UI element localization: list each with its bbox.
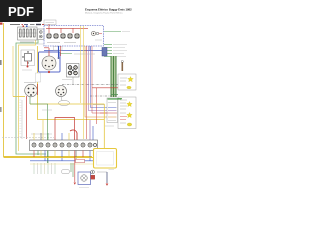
speedometer box (blue) <box>39 48 61 73</box>
lamp box B <box>118 97 136 129</box>
connector X3 (dark, right of blue bus) <box>102 48 107 57</box>
wire: orange branch <box>85 46 107 117</box>
chassis dash-dot line upper <box>62 84 118 86</box>
wire: red bus top <box>46 27 88 29</box>
connector plug P6 <box>91 31 102 36</box>
wire: blue bus below harness <box>44 50 102 52</box>
wire: red stub harness bottom <box>60 46 62 56</box>
wire: blue drop right <box>89 46 91 51</box>
svg-text:Manual - Diagrama Fiação Parte: Manual - Diagrama Fiação Parte Elétrica <box>85 12 123 15</box>
tiny labels above strip <box>31 133 52 135</box>
node: red stub top-left page edge <box>0 23 3 25</box>
wire: yellow horizontal mid <box>30 103 104 105</box>
wire: red drop with arrow <box>74 151 76 183</box>
labels under plugs <box>47 42 60 44</box>
ladder ticks along left band <box>19 100 21 136</box>
legend rows right <box>104 32 130 57</box>
wire: green feeds into lamp box B <box>111 95 123 99</box>
wire: red horizontal to lamp box <box>92 87 118 89</box>
wire: green label stub right of speedo <box>60 53 72 55</box>
wire: red vertical right of bundle <box>96 88 98 124</box>
margin mark 2 <box>0 107 2 112</box>
wire: center blue vertical <box>91 46 108 108</box>
wire: yellow drop from relay box to bottom <box>103 104 105 148</box>
small dark component above lamp box <box>122 62 124 71</box>
label card left of speedometer <box>36 73 41 82</box>
wire: center yellow verticals <box>80 26 82 103</box>
label oval bottom left <box>62 170 70 174</box>
wire: red drops from bus <box>49 24 73 33</box>
label box under harness <box>54 47 63 51</box>
chassis dash-dot line lower <box>90 95 118 97</box>
wire: left margin yellow vertical <box>4 23 93 157</box>
harness box (blue dashed) <box>44 26 104 47</box>
relay K1 <box>21 50 35 68</box>
fuse box F1 <box>18 26 38 43</box>
wire: yellow vertical mid-left turning right <box>38 46 105 120</box>
connector plug P4 <box>67 33 72 38</box>
starter cluster right <box>91 170 114 186</box>
wire: center purple vertical <box>89 46 108 111</box>
instrument cluster G1 left <box>24 83 38 105</box>
relay box R (left of lamp box B) <box>100 98 122 123</box>
wire stubs below strip <box>34 151 90 164</box>
svg-text:PDF: PDF <box>8 4 34 19</box>
margin mark 1 <box>0 60 2 65</box>
wire: yellow bottom horizontal <box>4 157 94 159</box>
small label box above harness <box>44 20 56 25</box>
terminal strip TB1 <box>30 140 98 151</box>
wire: red vertical left <box>26 96 28 139</box>
wire: gray vertical <box>21 100 23 139</box>
wire: left yellow vertical 2 <box>12 46 14 97</box>
svg-text:Esquema Elétrico Buggy Emis 19: Esquema Elétrico Buggy Emis 1982 <box>85 8 132 12</box>
wire: left yellow vertical 3 <box>19 40 36 151</box>
wire: left green vertical <box>16 40 46 154</box>
wire: blue bottom horizontal <box>30 160 94 162</box>
wire stubs above strip <box>34 120 93 140</box>
wire: green vertical to strip <box>30 104 48 140</box>
wire: blue thick from harness to speedometer <box>58 46 60 57</box>
battery box (yellow) <box>94 149 117 169</box>
ignition switch S1 <box>56 86 70 106</box>
wire: center red vertical <box>86 46 88 139</box>
label tag on blue wire <box>76 159 85 162</box>
connector plug P2 <box>53 33 58 38</box>
lamp L1 <box>128 77 134 82</box>
lamp box A <box>118 74 136 90</box>
connector X2 (right of fuse box) <box>38 29 45 40</box>
wire: green drops to motor <box>71 163 73 177</box>
connector plug P3 <box>60 33 65 38</box>
connector plug P5 <box>74 33 79 38</box>
wire: pale yellow second bottom horizontal <box>30 163 93 165</box>
flasher cluster box <box>67 64 80 85</box>
wire: yellow jog near cluster <box>13 96 25 98</box>
wire: red jog below harness <box>44 47 49 49</box>
bottom stub wires <box>34 163 55 174</box>
motor M1 (wiper motor in blue box) <box>78 172 91 188</box>
wire: center red vertical 2 <box>92 46 107 113</box>
red loop above terminal strip <box>55 118 75 141</box>
PDF badge <box>0 0 42 22</box>
red thick jog <box>70 130 77 140</box>
gray feed into relay box <box>93 104 104 106</box>
dashed gray line above strip <box>2 137 54 139</box>
connector plug P1 <box>46 33 51 38</box>
misc tiny text labels <box>10 22 114 126</box>
green trunk band <box>111 56 117 97</box>
